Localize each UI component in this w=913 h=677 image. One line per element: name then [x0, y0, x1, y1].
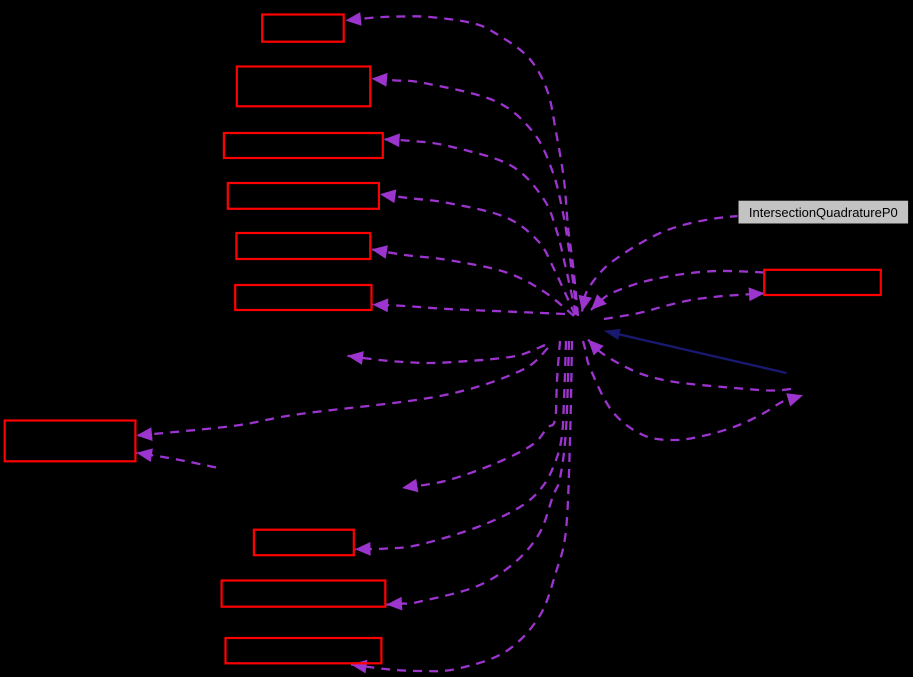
- edge hub to node D: [380, 189, 575, 315]
- edge hub to hidden node N2: [402, 341, 560, 492]
- node box D: [228, 183, 379, 209]
- edge hub to node I: [137, 348, 549, 441]
- node box E: [236, 233, 370, 259]
- node box K: [222, 581, 386, 607]
- node IntersectionQuadratureP0: [738, 200, 909, 224]
- node box F: [235, 285, 371, 310]
- node box B: [237, 67, 370, 107]
- edge hub to node B: [372, 73, 578, 315]
- edge IntersectionQuadratureP0 to hub: [579, 216, 740, 312]
- edge hub to node N3: [583, 341, 803, 440]
- edge hub to hidden node M: [348, 345, 546, 365]
- edge hub to node L: [351, 341, 572, 673]
- edge hub to node K: [387, 341, 570, 611]
- node box C: [224, 133, 383, 158]
- edge hidden node N2 to node I: [137, 448, 217, 467]
- node box I: [5, 421, 136, 462]
- node box H: [764, 270, 881, 295]
- edge hub to node C: [384, 133, 576, 314]
- edge node H to hub: [591, 271, 764, 310]
- inheritance edge node N3 to hub (solid): [604, 329, 787, 373]
- node box A: [262, 15, 344, 42]
- edge hub to node J: [355, 341, 566, 556]
- edge hub to node E: [372, 245, 575, 316]
- edge node N3 to hub: [588, 340, 791, 391]
- edge hub to node F: [373, 298, 566, 314]
- edge hub to node H: [604, 287, 765, 319]
- node box L: [226, 638, 382, 663]
- edge hub to node A: [346, 12, 579, 316]
- node box J: [254, 530, 354, 556]
- svg-text:IntersectionQuadratureP0: IntersectionQuadratureP0: [749, 205, 898, 220]
